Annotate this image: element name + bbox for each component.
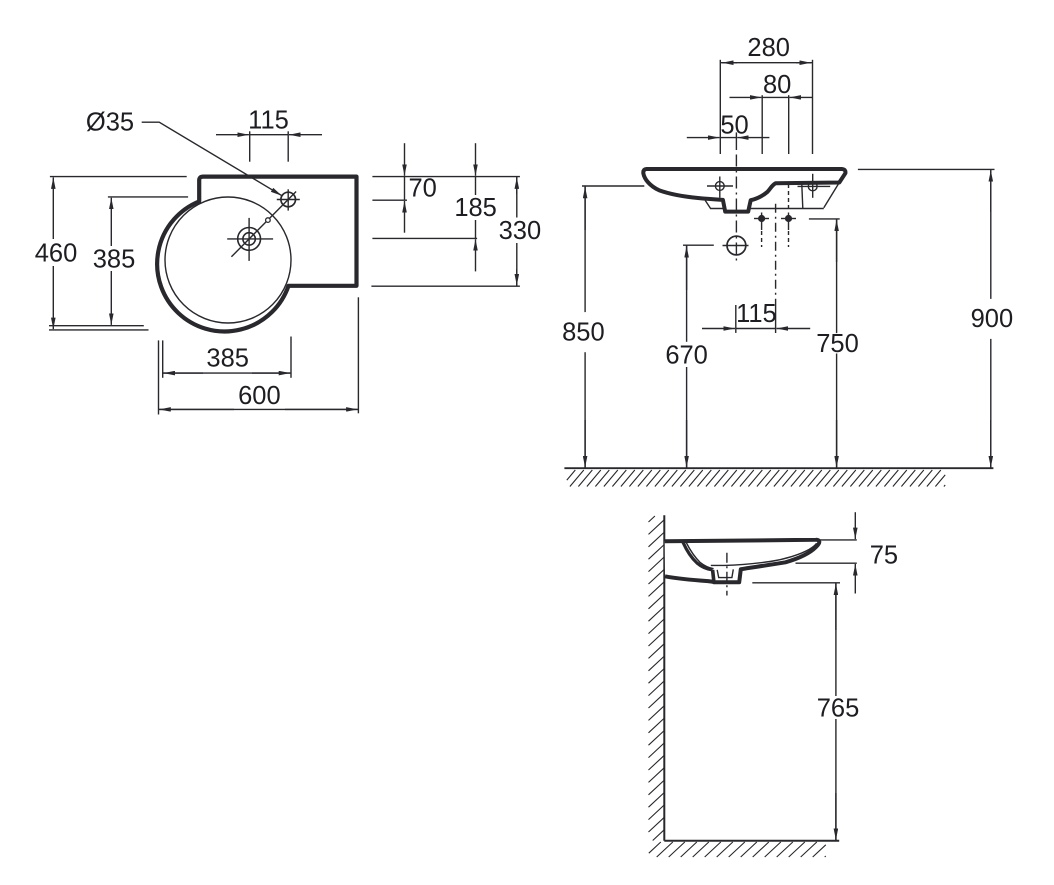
diagonal centerline xyxy=(231,192,296,257)
wall hatch xyxy=(649,516,665,841)
basin inner bottom and surface xyxy=(711,543,817,565)
faucet crosshair xyxy=(277,199,300,201)
drain crosshair xyxy=(227,238,273,240)
washbasin side outline xyxy=(665,540,820,582)
dim 185 xyxy=(475,177,477,195)
bottom thin edge xyxy=(705,200,824,208)
basin inner rim circle xyxy=(165,197,291,323)
floor hatch front xyxy=(567,470,945,487)
dim 765 xyxy=(752,582,840,584)
drain left side xyxy=(713,570,714,582)
dim 850 xyxy=(582,185,644,187)
drain outer circle xyxy=(238,228,261,251)
svg-text:50: 50 xyxy=(720,111,748,139)
wall line xyxy=(663,515,665,841)
svg-text:185: 185 xyxy=(454,194,497,222)
dim 75 xyxy=(820,539,857,541)
dim 70 xyxy=(404,177,406,201)
fixing centerline 115 xyxy=(775,204,777,303)
basin inner back curve thin xyxy=(686,543,713,569)
floor line side xyxy=(664,840,839,842)
svg-text:460: 460 xyxy=(35,239,78,267)
drain centerline xyxy=(726,553,728,596)
dim 115 arrows xyxy=(250,134,289,136)
leader line O35 xyxy=(142,122,282,196)
dim 385 horizontal extensions xyxy=(162,340,164,377)
washbasin plan outline xyxy=(157,177,356,332)
svg-text:385: 385 xyxy=(206,345,249,373)
dim 600 line+arrows xyxy=(159,408,359,410)
svg-text:900: 900 xyxy=(971,305,1014,333)
dim 600 extensions xyxy=(158,340,160,414)
dim 280 xyxy=(719,60,721,154)
svg-text:600: 600 xyxy=(238,382,281,410)
svg-text:115: 115 xyxy=(736,300,777,328)
dim 385 horizontal line+arrows xyxy=(163,372,291,374)
dim 460 line+arrows xyxy=(52,177,54,239)
left faucet hole xyxy=(715,182,724,191)
dim 460 extension lines xyxy=(50,176,187,178)
dim 50 xyxy=(735,132,737,150)
svg-text:750: 750 xyxy=(816,330,859,358)
dim 115 front xyxy=(735,305,737,333)
dim 750 xyxy=(809,218,840,220)
faucet hole circle xyxy=(281,192,296,207)
main centerline xyxy=(735,155,737,262)
dim 670 xyxy=(683,244,714,246)
drain inner funnel xyxy=(717,569,733,577)
dim 385 vertical line+arrows xyxy=(110,198,112,246)
svg-text:Ø35: Ø35 xyxy=(86,108,134,136)
svg-text:80: 80 xyxy=(763,71,791,99)
dim 115 extension lines xyxy=(249,131,251,161)
fixing hole right xyxy=(786,216,792,222)
drain inner circle xyxy=(243,233,255,245)
washbasin front outline xyxy=(643,169,845,212)
dim 385 vertical extension xyxy=(108,196,188,198)
svg-text:330: 330 xyxy=(499,217,542,245)
right faucet hole xyxy=(808,182,817,191)
svg-text:70: 70 xyxy=(409,174,437,202)
right lower thin diagonal xyxy=(824,183,840,208)
basin inner back curve thick xyxy=(683,542,713,570)
floor line front xyxy=(564,467,993,469)
svg-text:75: 75 xyxy=(870,541,898,569)
drain pipe circle xyxy=(727,236,746,255)
svg-text:670: 670 xyxy=(665,341,708,369)
svg-text:765: 765 xyxy=(817,694,860,722)
floor hatch side xyxy=(649,842,826,857)
dim 80 xyxy=(761,95,763,154)
inner recess line xyxy=(802,184,803,208)
svg-text:115: 115 xyxy=(248,106,289,134)
svg-text:850: 850 xyxy=(562,319,605,347)
fixing hole left xyxy=(759,216,765,222)
right side reference lines xyxy=(372,176,520,178)
svg-text:280: 280 xyxy=(747,34,790,62)
dim 900 xyxy=(858,168,995,170)
overflow small circle xyxy=(266,218,271,223)
dim 330 xyxy=(516,177,518,218)
svg-text:385: 385 xyxy=(93,245,136,273)
